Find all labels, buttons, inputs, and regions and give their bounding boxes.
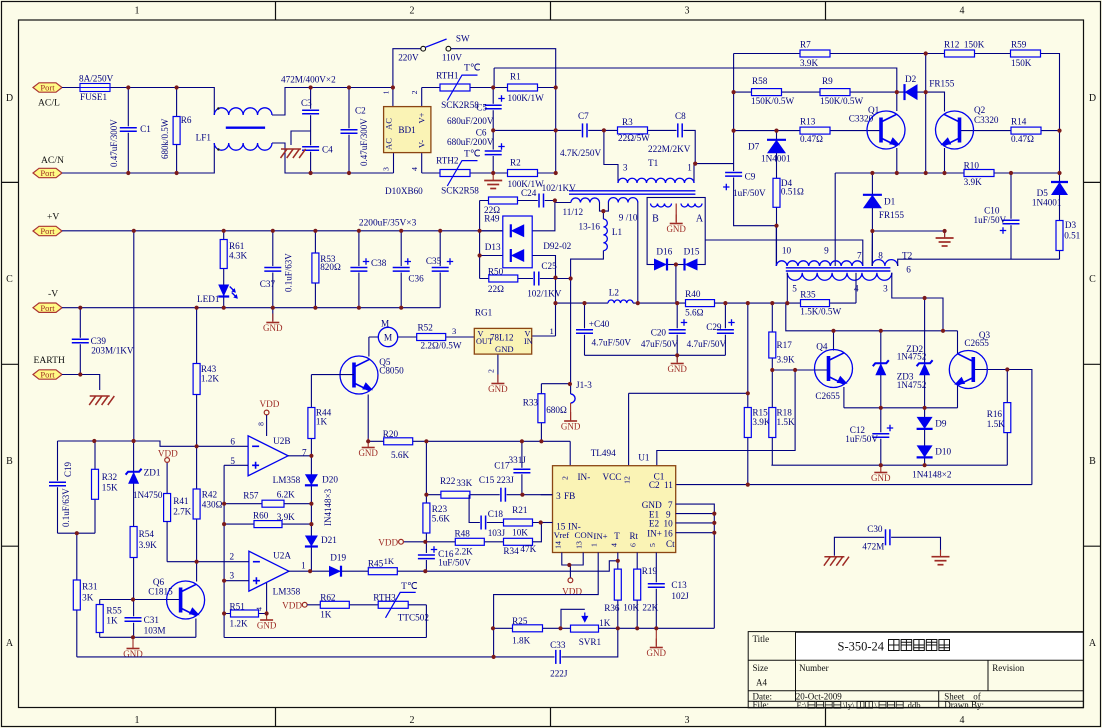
svg-text:C3: C3 [301, 98, 312, 108]
wire pin5 row [224, 464, 248, 466]
svg-text:R7: R7 [800, 40, 811, 50]
resistor R22 [441, 491, 470, 498]
svg-text:D13: D13 [485, 242, 501, 252]
resistor R31 [73, 580, 80, 610]
wire D2 Q2 link [897, 92, 945, 111]
capacitor C3 [302, 109, 319, 115]
svg-text:C2655: C2655 [815, 391, 840, 401]
ground u2a gnd [266, 611, 268, 620]
capacitor C30 [884, 529, 891, 545]
svg-text:5: 5 [230, 456, 235, 466]
svg-text:2: 2 [410, 6, 415, 17]
svg-text:IN: IN [524, 337, 533, 346]
svg-text:14: 14 [553, 541, 562, 549]
resistor R51 [231, 610, 259, 617]
svg-text:M: M [381, 318, 389, 328]
inductor LF1 [214, 108, 272, 115]
svg-text:U1: U1 [638, 453, 650, 463]
svg-text:D1: D1 [884, 196, 896, 206]
svg-text:C38: C38 [371, 258, 387, 268]
svg-text:0.51Ω: 0.51Ω [781, 187, 804, 197]
svg-text:L1: L1 [612, 227, 623, 237]
capacitor C17 [513, 468, 530, 474]
resistor R12 [945, 50, 975, 57]
wire pin3 row [224, 580, 249, 582]
svg-text:R3: R3 [622, 117, 633, 127]
svg-text:D21: D21 [321, 535, 337, 545]
earth ground d1 gnd [936, 231, 954, 246]
svg-text:C15 223J: C15 223J [479, 475, 514, 485]
resistor R23 [423, 503, 430, 533]
wire R17 R18 col [771, 303, 773, 465]
transformer T2 primary [776, 261, 862, 266]
svg-text:3: 3 [685, 6, 690, 17]
wire J1 R33 row [541, 383, 570, 385]
svg-text:47K: 47K [520, 544, 536, 554]
wire in16 wire [676, 532, 715, 534]
inductor L2 [608, 300, 633, 303]
svg-text:2.2K: 2.2K [455, 547, 473, 557]
svg-text:R58: R58 [752, 76, 768, 86]
resistor R53 [312, 253, 319, 283]
svg-text:110V: 110V [442, 53, 462, 63]
svg-text:3: 3 [452, 326, 456, 336]
diode D16 [654, 259, 667, 271]
wire C37 col [272, 231, 274, 321]
svg-text:3: 3 [556, 491, 561, 501]
svg-text:BD1: BD1 [398, 125, 416, 135]
resistor R58 [752, 89, 782, 96]
svg-text:4.7uF/50V: 4.7uF/50V [592, 337, 632, 347]
svg-text:R59: R59 [1011, 40, 1027, 50]
wire caps gnd stub [676, 355, 678, 362]
capacitor C25 [533, 272, 540, 286]
svg-text:1uF/50V: 1uF/50V [845, 434, 878, 444]
wire pin5 col [223, 465, 225, 637]
capacitor C24 [538, 194, 545, 208]
svg-text:16: 16 [664, 528, 674, 538]
capacitor C16 [418, 554, 435, 560]
wire D7 D4 col [776, 131, 778, 266]
svg-text:RTH1: RTH1 [436, 70, 459, 80]
svg-text:B: B [1089, 456, 1096, 467]
svg-text:SVR1: SVR1 [579, 637, 602, 647]
wire VDD R41 col [166, 463, 168, 494]
svg-text:430Ω: 430Ω [202, 500, 223, 510]
wire C18 R21 row [469, 495, 552, 523]
svg-text:D2: D2 [905, 74, 917, 84]
wire C19 col [57, 441, 59, 533]
svg-text:R16: R16 [987, 409, 1003, 419]
title block [748, 632, 1083, 708]
svg-text:33K: 33K [456, 478, 472, 488]
wire VCC col [747, 303, 749, 485]
resistor R45 [368, 568, 397, 575]
wire C39 col [79, 308, 81, 375]
wire R32 col [94, 441, 96, 533]
svg-text:\ly\: \ly\ [843, 700, 855, 710]
wire Q5 collector [368, 337, 370, 357]
svg-text:A: A [6, 638, 14, 649]
wire LF1 bottom out [272, 143, 394, 173]
svg-text:10K: 10K [512, 527, 528, 537]
svg-text:D15: D15 [684, 246, 700, 256]
svg-text:Title: Title [753, 634, 770, 644]
svg-text:C25: C25 [541, 261, 557, 271]
ground output gnd [880, 464, 882, 473]
diode LED1-body [218, 285, 229, 297]
capacitor C6 [485, 150, 502, 156]
svg-text:6: 6 [906, 264, 911, 274]
svg-text:R23: R23 [432, 504, 448, 514]
svg-text:D10XB60: D10XB60 [385, 186, 423, 196]
wire Q5 emitter col [367, 395, 369, 442]
wire Q4 collector [833, 331, 835, 351]
resistor SVR1 [571, 625, 599, 632]
svg-text:1K: 1K [106, 616, 118, 626]
rectifier D13 D92-02 [503, 216, 532, 268]
wire Q3 emitter [957, 385, 959, 408]
wire RG1 in row [532, 335, 556, 337]
svg-text:8: 8 [257, 422, 266, 426]
svg-text:1K: 1K [599, 618, 611, 628]
svg-text:1K: 1K [384, 556, 395, 566]
svg-text:1: 1 [590, 543, 599, 547]
svg-text:1.8K: 1.8K [512, 636, 530, 646]
svg-text:1uF/50V: 1uF/50V [733, 188, 766, 198]
transformer T1 primary [618, 178, 694, 183]
wire U2A pin4 stub [266, 583, 268, 614]
transistor Q4 [815, 350, 853, 388]
wire pin15 stub [541, 522, 553, 524]
wire VCC chip col [628, 393, 630, 465]
wire LF1 top out [272, 88, 393, 116]
svg-text:+V: +V [47, 212, 59, 223]
resistor R34 [504, 538, 533, 545]
diode D13b [511, 249, 524, 262]
capacitor C33 [555, 650, 562, 664]
wire T1 pin3 riser [604, 130, 618, 183]
svg-text:5: 5 [792, 283, 797, 293]
wire hv top rail [494, 68, 897, 111]
svg-text:C9: C9 [745, 171, 756, 181]
capacitor C13 [648, 582, 665, 588]
wire ZD1 col [133, 231, 135, 441]
svg-text:R41: R41 [173, 496, 189, 506]
port EARTH [33, 370, 62, 379]
svg-text:R52: R52 [418, 323, 434, 333]
svg-text:4.7K/250V: 4.7K/250V [560, 148, 601, 158]
wire switch 110V out [451, 49, 556, 173]
wire R7 row [734, 53, 926, 55]
T2 secondary [787, 273, 892, 280]
svg-text:680k/0.5W: 680k/0.5W [160, 118, 170, 159]
diode D13a [511, 224, 524, 237]
svg-text:D: D [6, 93, 13, 104]
svg-text:R51: R51 [230, 601, 246, 611]
svg-text:13: 13 [575, 541, 584, 549]
op-amp U2B [248, 436, 288, 476]
wire R58 R9 D2 row [734, 91, 897, 93]
wire gnd bus row [493, 627, 714, 629]
svg-text:VDD: VDD [158, 448, 178, 458]
svg-text:2: 2 [230, 552, 235, 562]
svg-text:C30: C30 [867, 524, 883, 534]
wire top diode right [532, 201, 555, 231]
capacitor C39 [72, 338, 89, 344]
svg-text:FB: FB [564, 491, 575, 501]
resistor R41 [164, 494, 171, 522]
svg-text:GND: GND [642, 500, 662, 510]
svg-text:R19: R19 [642, 566, 658, 576]
svg-text:EARTH: EARTH [34, 355, 65, 366]
wire T2 pin7 link [705, 240, 863, 266]
resistor R10 [964, 170, 994, 177]
wire main rail left [556, 302, 609, 304]
wire pin1 wire [494, 553, 599, 657]
svg-text:R9: R9 [822, 76, 833, 86]
svg-text:C5: C5 [476, 102, 487, 112]
wire R51 row [224, 613, 267, 615]
svg-text:R49: R49 [484, 214, 500, 224]
T1 core [569, 190, 695, 192]
resistor R52 [417, 334, 446, 341]
wire +V rail [62, 230, 503, 232]
capacitor C1 [120, 126, 137, 132]
svg-text:RTH2: RTH2 [436, 156, 459, 166]
svg-text:C31: C31 [144, 615, 160, 625]
svg-text:VDD: VDD [260, 399, 280, 409]
wire C10 col [1010, 173, 1012, 259]
svg-text:5.6K: 5.6K [391, 450, 409, 460]
svg-text:3: 3 [382, 167, 391, 171]
wire R55 col [99, 600, 101, 638]
wire caps bottom row [585, 354, 726, 356]
svg-text:4: 4 [960, 6, 965, 17]
port AC/L [33, 83, 62, 92]
wire vdd stub [569, 565, 571, 578]
wire RTH2 row [422, 172, 556, 174]
svg-text:Rt: Rt [630, 531, 639, 541]
svg-text:2200uF/35V×3: 2200uF/35V×3 [359, 219, 417, 229]
wire switch 220V riser [393, 49, 421, 88]
diode D19 [329, 566, 341, 577]
wire Q3 base link [973, 370, 1032, 485]
svg-text:T1: T1 [648, 158, 659, 168]
resistor R21 [504, 519, 533, 526]
wire C36 col [400, 231, 402, 308]
svg-text:GND: GND [871, 473, 891, 483]
svg-text:IN-: IN- [578, 472, 591, 482]
file path CJK glyphs (drawn) [808, 702, 815, 709]
wire D1 gnd row [872, 231, 944, 237]
resistor R9 [820, 89, 850, 96]
svg-text:1.5K/0.5W: 1.5K/0.5W [800, 307, 841, 317]
svg-text:B: B [652, 213, 659, 224]
resistor R18 [769, 408, 776, 438]
svg-text:VCC: VCC [603, 472, 622, 482]
svg-text:R20: R20 [383, 429, 399, 439]
zener ZD3 [919, 363, 930, 375]
diode D15 [685, 259, 698, 271]
svg-text:GND: GND [561, 422, 581, 432]
wire mid row [493, 130, 695, 163]
svg-text:R21: R21 [512, 505, 528, 515]
svg-text:2: 2 [487, 369, 496, 373]
svg-text:3.9K: 3.9K [752, 417, 770, 427]
winding B/A assembly [647, 198, 705, 265]
svg-text:C3320: C3320 [974, 115, 999, 125]
svg-text:22Ω: 22Ω [488, 284, 504, 294]
svg-text:11: 11 [664, 480, 673, 490]
svg-text:C8050: C8050 [379, 366, 404, 376]
resistor R7 [800, 50, 830, 57]
wire T2 pin4 drop [855, 273, 857, 303]
svg-text:D3: D3 [1065, 220, 1077, 230]
earth ground c30 earth right [932, 550, 950, 565]
svg-text:C35: C35 [426, 256, 442, 266]
wire R14 row [959, 130, 1060, 132]
resistor R33 [538, 394, 545, 423]
svg-text:472M/400V×2: 472M/400V×2 [281, 75, 336, 85]
svg-text:C13: C13 [671, 580, 687, 590]
wire snubber to winding [555, 202, 571, 204]
svg-text:VDD: VDD [282, 601, 302, 611]
wire C2 branch [348, 88, 350, 174]
title CJK glyphs (drawn) [889, 640, 900, 651]
wire T2-8 drop [871, 231, 873, 266]
svg-text:GND: GND [666, 224, 686, 234]
svg-text:Port: Port [40, 168, 55, 178]
wire BD1 pin1 [392, 88, 394, 107]
resistor R16 [1004, 403, 1011, 433]
svg-text:R32: R32 [102, 472, 118, 482]
wire R31 col [76, 533, 78, 657]
wire C30 link [834, 537, 940, 555]
wire FB row stub [541, 494, 553, 496]
svg-text:J1-3: J1-3 [576, 380, 592, 390]
capacitor C18 [480, 516, 487, 530]
svg-text:Port: Port [40, 83, 55, 93]
svg-text:8A/250V: 8A/250V [79, 74, 114, 84]
svg-text:103M: 103M [144, 626, 166, 636]
wire RG1 gnd stub [497, 354, 499, 382]
svg-text:472M: 472M [862, 542, 884, 552]
wire T2-6 row [898, 259, 1060, 266]
wire emitter row [844, 407, 958, 409]
wire RTH1 row [422, 87, 556, 89]
thermistor RTH2 [440, 170, 470, 177]
wire U2B out stub [288, 455, 311, 457]
resistor R1 [508, 84, 538, 91]
svg-text:C1: C1 [140, 124, 151, 134]
wire C2-11 row [676, 484, 1032, 486]
svg-text:A: A [696, 213, 704, 224]
wire Q3 collector [957, 331, 959, 354]
svg-text:IN+: IN+ [593, 531, 607, 541]
svg-text:A4: A4 [756, 677, 767, 687]
wire R16 col [1006, 370, 1008, 466]
svg-text:8: 8 [878, 251, 883, 261]
svg-text:D5: D5 [1037, 188, 1049, 198]
wire R50 C25 row [480, 278, 571, 280]
svg-text:331J: 331J [509, 455, 527, 465]
svg-text:T℃: T℃ [401, 581, 418, 592]
svg-text:3: 3 [230, 571, 235, 581]
svg-text:102J: 102J [671, 591, 689, 601]
svg-text:1.5K: 1.5K [777, 417, 795, 427]
svg-text:D: D [1089, 93, 1096, 104]
svg-text:6.2K: 6.2K [277, 490, 295, 500]
svg-text:TTC502: TTC502 [398, 612, 430, 622]
svg-text:R62: R62 [320, 592, 336, 602]
transistor Q1 [867, 111, 905, 149]
wire gnd7 wire [676, 504, 715, 628]
wire e2 wire [676, 522, 715, 524]
resistor R15 [744, 408, 751, 438]
svg-text:E2: E2 [649, 519, 660, 529]
wire R57 row [224, 503, 311, 505]
svg-text:R31: R31 [82, 582, 98, 592]
wire R7 net col [733, 54, 735, 171]
svg-text:820Ω: 820Ω [320, 262, 341, 272]
wire AC/N row [62, 143, 214, 173]
svg-text:1: 1 [382, 90, 391, 94]
svg-text:E:\: E:\ [797, 700, 808, 710]
svg-text:IN+: IN+ [647, 528, 662, 538]
wire R60 row [224, 523, 311, 525]
svg-text:C6: C6 [476, 127, 487, 137]
earth ground bd1 gnd [484, 174, 502, 189]
wire Q6 bottom row [100, 636, 196, 638]
svg-text:150K/0.5W: 150K/0.5W [820, 96, 863, 106]
svg-text:Q4: Q4 [816, 342, 828, 352]
svg-text:U2B: U2B [273, 436, 290, 446]
svg-text:12: 12 [623, 476, 632, 484]
thermistor RTH3 [378, 601, 408, 608]
wire chip pin2 col [569, 441, 571, 465]
svg-text:C29: C29 [706, 322, 722, 332]
wire RTH3 col [425, 605, 427, 638]
wire col 426 lower [425, 560, 427, 571]
svg-text:D16: D16 [656, 246, 672, 256]
wire Q rail [786, 303, 958, 331]
capacitor C36 [393, 266, 410, 272]
svg-text:3: 3 [685, 715, 690, 726]
svg-text:D20: D20 [322, 475, 338, 485]
wire C1 branch [127, 88, 129, 174]
svg-text:T2: T2 [902, 251, 913, 261]
svg-text:R54: R54 [139, 529, 155, 539]
svg-text:GND: GND [647, 648, 667, 658]
svg-text:R42: R42 [202, 490, 218, 500]
svg-text:R22: R22 [440, 476, 456, 486]
fuse FUSE1 [80, 84, 110, 92]
svg-text:222M/2KV: 222M/2KV [648, 144, 691, 154]
svg-text:R48: R48 [455, 529, 471, 539]
capacitor C20 [669, 328, 686, 334]
wire AC/L row [62, 88, 214, 116]
bridge rectifier BD1 [384, 107, 431, 153]
diode D21 [305, 536, 318, 547]
svg-text:T℃: T℃ [464, 63, 481, 74]
svg-text:3K: 3K [82, 592, 94, 602]
wire M R52 row [369, 336, 474, 338]
wire EARTH row [62, 375, 100, 391]
ground caps gnd [676, 355, 678, 364]
wire e1 wire [676, 513, 715, 515]
svg-text:Vref: Vref [554, 530, 570, 540]
